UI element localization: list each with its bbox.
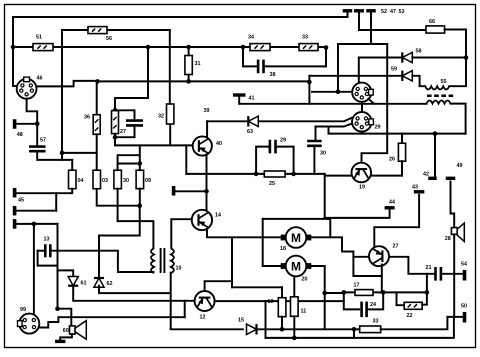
svg-text:40: 40 — [216, 141, 222, 147]
wire — [312, 91, 338, 93]
wire — [184, 301, 186, 317]
junction — [292, 336, 297, 341]
svg-text:22: 22 — [407, 313, 413, 319]
wire — [367, 292, 384, 309]
svg-text:43: 43 — [412, 185, 418, 191]
junction — [186, 45, 191, 50]
wire — [309, 75, 402, 77]
svg-text:42: 42 — [423, 172, 429, 178]
terminal post 2 — [13, 206, 17, 216]
svg-text:18: 18 — [280, 246, 286, 252]
wire — [16, 210, 56, 212]
resistor 33 — [360, 326, 381, 333]
wire — [71, 160, 73, 170]
wire — [256, 173, 325, 175]
ground terminal 41 — [233, 93, 246, 96]
terminal 48 — [13, 119, 17, 129]
wire — [266, 317, 454, 338]
wire — [257, 328, 355, 330]
wire — [324, 293, 326, 329]
wire — [13, 46, 326, 48]
wire — [16, 189, 73, 194]
svg-text:11: 11 — [301, 309, 307, 315]
wire — [401, 134, 403, 144]
terminal 50 — [463, 312, 467, 323]
svg-text:55: 55 — [441, 79, 447, 85]
svg-text:47: 47 — [390, 9, 396, 15]
wire — [344, 292, 359, 309]
svg-text:38: 38 — [270, 72, 276, 78]
wire — [451, 104, 466, 134]
svg-text:30: 30 — [123, 178, 129, 184]
wire — [115, 125, 135, 137]
wire — [442, 273, 463, 275]
wire — [36, 81, 97, 87]
resistor 04 — [69, 170, 77, 189]
wire — [361, 132, 363, 134]
junction — [60, 151, 65, 156]
capacitor 38 — [258, 60, 263, 74]
wire — [353, 329, 355, 338]
svg-text:57: 57 — [40, 138, 46, 144]
wire — [263, 219, 331, 237]
junction — [113, 108, 118, 113]
fuse 36 — [93, 115, 100, 135]
ground terminal 53 — [366, 9, 376, 12]
wire — [185, 145, 187, 174]
svg-text:10: 10 — [176, 266, 182, 272]
ground terminal 42 — [428, 177, 437, 180]
wire — [186, 173, 256, 175]
wire — [315, 127, 317, 141]
wire — [39, 317, 58, 327]
wire — [62, 152, 97, 154]
wire — [62, 29, 170, 31]
wire — [312, 266, 325, 293]
wire — [359, 29, 426, 31]
wire — [171, 328, 243, 330]
wire — [98, 80, 310, 82]
junction — [35, 122, 40, 127]
fuse 34 — [250, 44, 270, 51]
diode 63 — [248, 116, 258, 126]
svg-text:17: 17 — [354, 283, 360, 289]
junction — [11, 45, 16, 50]
svg-text:13: 13 — [44, 237, 50, 243]
wire — [293, 276, 295, 296]
capacitor 57 — [29, 147, 46, 152]
wire — [358, 12, 360, 30]
wire — [118, 221, 154, 248]
wire — [115, 137, 193, 145]
svg-text:20: 20 — [302, 277, 308, 283]
wire — [58, 316, 184, 318]
svg-text:60: 60 — [63, 328, 69, 334]
resistor 26 — [398, 143, 405, 161]
speaker 28 — [451, 223, 464, 242]
wire — [207, 229, 280, 237]
transistor 12 — [195, 291, 215, 311]
transformer 10 — [151, 248, 174, 273]
svg-text:66: 66 — [429, 19, 435, 25]
wire — [60, 334, 72, 341]
wire — [354, 328, 362, 330]
svg-text:52: 52 — [381, 9, 387, 15]
wire — [389, 257, 434, 274]
motor 20 — [281, 256, 312, 277]
wire — [188, 47, 190, 81]
junction — [464, 55, 469, 60]
wire — [337, 44, 339, 92]
svg-text:31: 31 — [195, 61, 201, 67]
resistor 03 — [93, 170, 101, 189]
wire — [50, 251, 153, 272]
transistor 40 — [193, 136, 212, 155]
ground terminal 49 — [446, 177, 456, 180]
wire — [381, 317, 448, 329]
junction — [137, 203, 142, 208]
wire — [38, 251, 58, 266]
wire — [61, 30, 63, 153]
wire — [263, 219, 281, 266]
svg-text:15: 15 — [238, 318, 244, 324]
speaker 60 — [70, 321, 87, 340]
junction — [342, 290, 347, 295]
diode 61 — [68, 277, 78, 286]
wire — [33, 224, 35, 314]
fuse 33 — [299, 44, 318, 51]
wire — [397, 292, 405, 305]
svg-text:56: 56 — [106, 36, 112, 42]
wire — [13, 16, 348, 18]
wire — [170, 273, 172, 329]
junction — [352, 327, 357, 332]
junction — [241, 45, 246, 50]
capacitor 37 — [126, 121, 143, 126]
diode 59 — [402, 71, 412, 81]
wire — [169, 30, 171, 104]
wire — [61, 153, 63, 160]
wire — [176, 190, 207, 192]
wire — [353, 256, 369, 258]
svg-text:21: 21 — [426, 265, 432, 271]
tube socket 46 — [17, 77, 37, 99]
resistor 25 — [264, 171, 285, 177]
wire — [169, 124, 171, 145]
wire — [362, 44, 388, 163]
diode 58 — [402, 52, 412, 62]
junction — [381, 290, 386, 295]
tube socket 29 — [352, 112, 373, 132]
svg-text:33: 33 — [302, 35, 308, 41]
wire — [73, 286, 195, 301]
svg-text:48: 48 — [17, 132, 23, 138]
diode 15 — [247, 324, 257, 334]
transistor 14 — [192, 210, 212, 230]
ground terminal 52 — [343, 9, 353, 12]
svg-text:29: 29 — [280, 138, 286, 144]
ground terminal 44 — [385, 206, 395, 209]
svg-text:44: 44 — [389, 200, 395, 206]
wire — [328, 127, 330, 134]
wire — [240, 103, 426, 105]
wire — [347, 12, 349, 17]
wire — [313, 146, 315, 174]
wire — [58, 270, 74, 277]
junction — [32, 222, 37, 227]
svg-text:28: 28 — [445, 236, 451, 242]
svg-text:49: 49 — [457, 163, 463, 169]
terminal 54 — [463, 270, 467, 281]
wire — [344, 291, 427, 293]
wire — [381, 265, 383, 293]
wire — [114, 110, 116, 137]
wire — [359, 57, 401, 59]
svg-text:62: 62 — [107, 281, 113, 287]
wire — [426, 274, 428, 293]
capacitor 24 — [362, 302, 367, 318]
wire — [37, 151, 72, 160]
wire — [361, 104, 363, 112]
svg-text:51: 51 — [36, 35, 42, 41]
junction — [291, 172, 296, 177]
svg-text:59: 59 — [391, 67, 397, 73]
terminal post 3 — [13, 219, 17, 229]
capacitor 21 — [436, 267, 441, 281]
wire — [96, 134, 98, 170]
transistor 19 — [352, 163, 372, 183]
wire — [316, 124, 352, 127]
wire — [115, 110, 135, 120]
resistor 30 — [114, 170, 122, 189]
diode 62 — [94, 278, 104, 287]
wire — [117, 164, 119, 171]
wire — [16, 223, 57, 225]
svg-text:27: 27 — [120, 129, 126, 135]
tube socket 99 — [18, 314, 40, 334]
svg-text:14: 14 — [215, 213, 221, 219]
wire — [215, 300, 344, 302]
svg-text:04: 04 — [78, 178, 84, 184]
svg-text:50: 50 — [461, 304, 467, 310]
wire — [207, 120, 247, 122]
svg-text:39: 39 — [204, 108, 210, 114]
junction — [280, 327, 285, 332]
wire — [99, 206, 140, 278]
svg-text:99: 99 — [20, 307, 26, 313]
svg-text:09: 09 — [145, 178, 151, 184]
wire — [308, 76, 310, 82]
junction — [204, 189, 209, 194]
wire — [371, 175, 402, 177]
svg-text:63: 63 — [247, 129, 253, 135]
wire — [412, 76, 425, 86]
wire — [358, 58, 360, 84]
wire — [434, 134, 436, 179]
wire — [117, 189, 119, 221]
wire — [232, 286, 282, 288]
resistor 11 — [291, 297, 299, 317]
svg-text:25: 25 — [269, 181, 275, 187]
svg-text:M: M — [291, 231, 301, 245]
wire — [368, 99, 374, 104]
fuse 51 — [33, 44, 53, 51]
svg-text:32: 32 — [158, 114, 164, 120]
resistor 19 — [278, 298, 286, 317]
svg-text:M: M — [291, 260, 301, 274]
wire — [238, 97, 240, 104]
wire — [453, 234, 455, 317]
wire — [264, 65, 326, 67]
svg-text:19: 19 — [359, 185, 365, 191]
wire — [38, 250, 46, 252]
resistor 17 — [355, 290, 373, 296]
svg-text:36: 36 — [84, 115, 90, 121]
wire — [231, 237, 233, 287]
wire — [27, 99, 38, 124]
wire — [205, 281, 232, 291]
junction — [254, 172, 259, 177]
junction — [307, 80, 312, 85]
capacitor 30 — [307, 141, 322, 146]
wire — [293, 316, 295, 338]
terminal post — [172, 186, 176, 196]
wire — [449, 58, 466, 87]
resistor 32 — [167, 104, 174, 124]
wire — [401, 161, 403, 175]
wire — [97, 189, 140, 206]
wire — [308, 82, 310, 104]
wire — [115, 47, 148, 110]
wire — [412, 57, 466, 59]
fuse 27 — [112, 111, 119, 134]
wire — [206, 155, 208, 210]
ground terminal 47 — [354, 9, 364, 12]
wire — [325, 209, 390, 218]
wire — [312, 237, 382, 276]
capacitor 29 — [270, 140, 276, 154]
motor 18 — [281, 227, 312, 248]
wire — [370, 12, 372, 44]
wire — [57, 270, 59, 308]
fuse 56 — [88, 27, 107, 34]
terminal 45 — [13, 188, 17, 198]
junction — [336, 90, 341, 95]
transformer 55 — [425, 86, 453, 103]
transistor 27 — [369, 246, 389, 266]
svg-text:27: 27 — [393, 244, 399, 250]
wire — [58, 309, 72, 326]
wire — [96, 81, 98, 115]
junction — [95, 79, 100, 84]
junction — [138, 161, 143, 166]
svg-text:41: 41 — [249, 96, 255, 102]
wire — [118, 155, 140, 163]
junction — [113, 135, 118, 140]
svg-text:61: 61 — [81, 281, 87, 287]
wire — [374, 195, 419, 247]
wire — [118, 163, 140, 165]
junction — [433, 131, 438, 136]
svg-text:46: 46 — [37, 76, 43, 82]
wire — [447, 316, 462, 318]
svg-text:24: 24 — [370, 302, 376, 308]
fuse 22 — [404, 302, 422, 309]
svg-text:34: 34 — [248, 35, 254, 41]
wire — [36, 124, 38, 145]
wire — [13, 17, 17, 86]
svg-text:30: 30 — [320, 151, 326, 157]
wire — [256, 147, 269, 174]
wire — [265, 301, 267, 338]
svg-text:12: 12 — [200, 315, 206, 321]
wire — [206, 121, 208, 137]
svg-text:03: 03 — [102, 178, 108, 184]
wire — [57, 224, 59, 271]
svg-text:54: 54 — [461, 262, 467, 268]
wire — [55, 193, 57, 211]
svg-text:53: 53 — [399, 9, 405, 15]
wire — [325, 175, 352, 177]
ground terminal 43 — [414, 190, 425, 193]
ground of speaker 60 — [55, 340, 65, 343]
wire — [281, 287, 283, 297]
wire — [422, 292, 427, 304]
wire — [445, 30, 466, 58]
junction — [324, 45, 329, 50]
junction — [55, 306, 60, 311]
svg-text:19: 19 — [268, 299, 274, 305]
wire — [451, 182, 455, 228]
resistor 09 — [136, 170, 144, 189]
svg-text:29: 29 — [375, 125, 381, 131]
wire — [139, 189, 141, 206]
svg-text:26: 26 — [389, 157, 395, 163]
junction — [322, 291, 327, 296]
wire — [243, 47, 257, 66]
wire — [139, 145, 141, 170]
resistor 66 — [426, 26, 445, 33]
wire — [16, 123, 37, 125]
wire — [329, 133, 466, 135]
resistor 31 — [185, 56, 192, 75]
wire — [259, 118, 352, 121]
wire — [276, 147, 294, 174]
wire — [99, 286, 171, 293]
wire — [171, 219, 191, 248]
junction — [425, 290, 430, 295]
svg-text:33: 33 — [373, 319, 379, 325]
capacitor 13 — [45, 244, 50, 257]
tube socket A — [352, 83, 373, 102]
wire — [324, 174, 326, 218]
svg-text:58: 58 — [416, 49, 422, 55]
wire — [325, 48, 327, 67]
wire — [338, 43, 387, 45]
wire — [338, 91, 353, 93]
svg-text:45: 45 — [18, 198, 24, 204]
wire — [325, 292, 344, 294]
junction — [146, 45, 151, 50]
junction — [186, 79, 191, 84]
wire — [281, 317, 283, 330]
